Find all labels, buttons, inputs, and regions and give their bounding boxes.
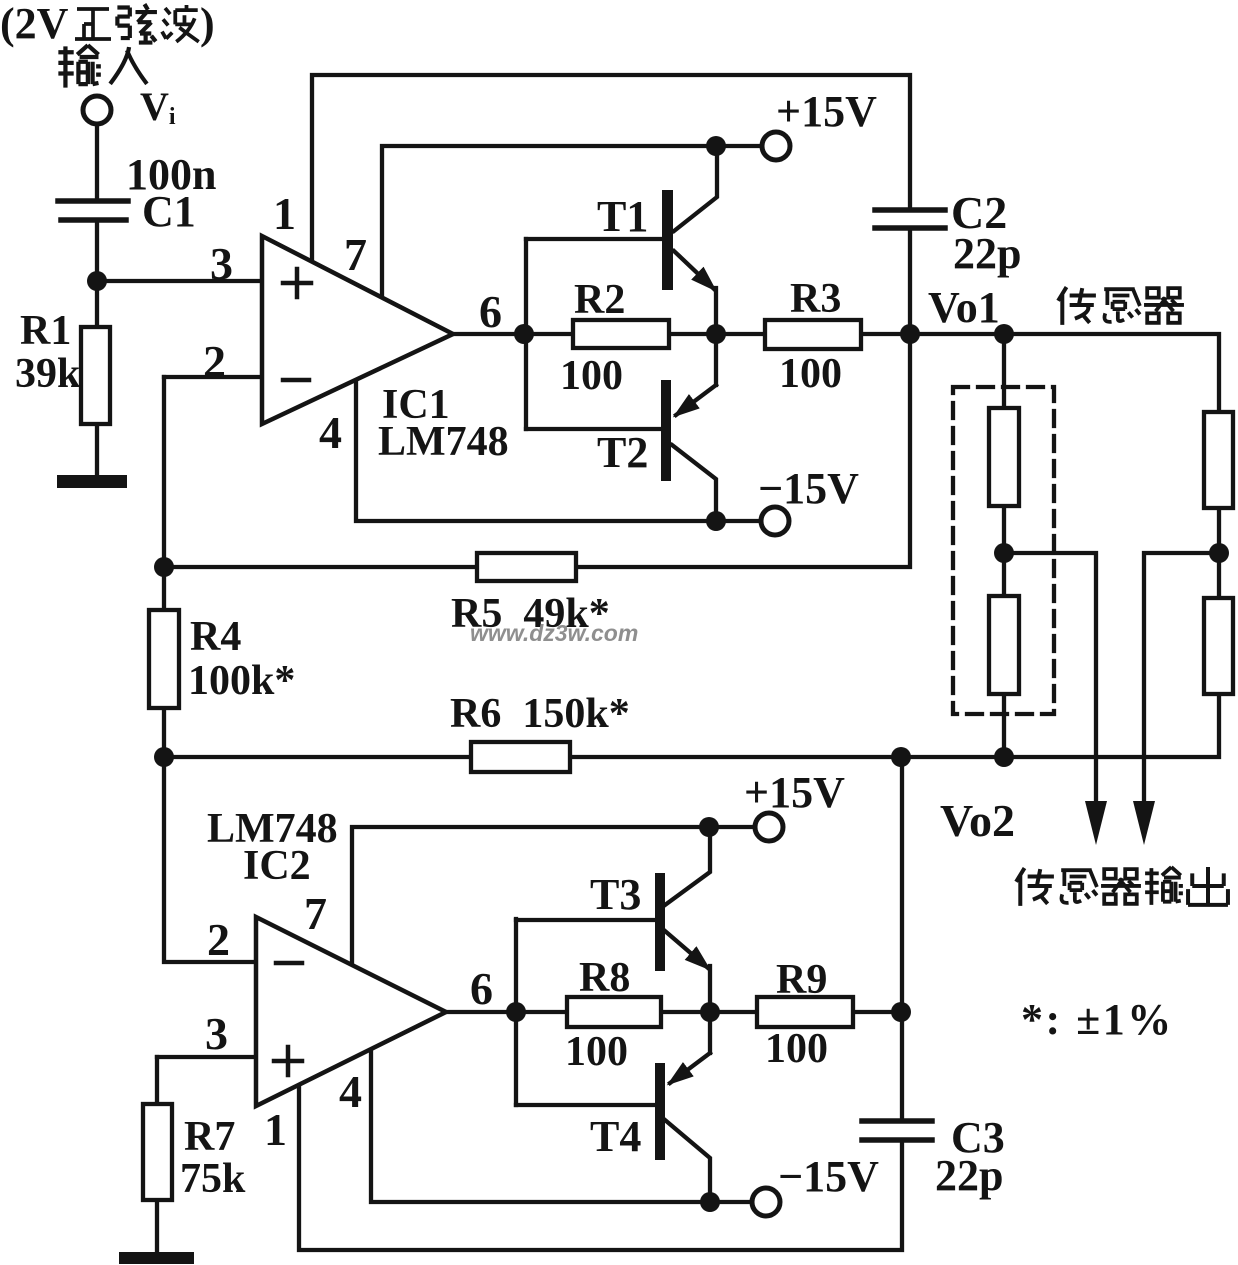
svg-text:−15V: −15V xyxy=(758,464,859,513)
op-amp IC1 xyxy=(262,236,453,424)
node bridge bottom xyxy=(994,747,1014,767)
resistor R9 xyxy=(757,997,853,1027)
wire IC2 pin 4 to -15V rail xyxy=(371,1046,753,1202)
wire C3 to bottom rail to IC2 pin 1 xyxy=(299,1083,902,1250)
svg-text:6: 6 xyxy=(479,286,502,337)
svg-text:4: 4 xyxy=(319,407,342,458)
svg-text:Vi: Vi xyxy=(140,84,176,130)
wire IC1 pin 4 to -15V rail xyxy=(356,378,761,521)
wire T2 base xyxy=(526,427,662,431)
wire C2 to output node xyxy=(908,229,912,334)
label zhengxianbo (sine wave) xyxy=(75,9,111,39)
wire Vo2 node down to C3 xyxy=(900,757,904,1120)
svg-text:R8: R8 xyxy=(579,955,630,1001)
svg-text:22p: 22p xyxy=(935,1151,1003,1200)
svg-text:6: 6 xyxy=(470,963,493,1014)
node R2-R3 emitters xyxy=(706,324,726,344)
wire input node to R1 xyxy=(95,281,99,327)
power terminal +15V xyxy=(762,132,790,160)
svg-text:100: 100 xyxy=(779,351,842,397)
svg-text:Vo1: Vo1 xyxy=(928,283,1000,332)
wire input node to IC1 pin 3 xyxy=(97,279,262,283)
wire IC1 output rail to right side xyxy=(453,334,1219,412)
node input xyxy=(87,271,107,291)
resistor R1 xyxy=(81,327,110,424)
label chuanganqi shuchu (sensor output) xyxy=(1016,868,1054,906)
svg-text:*: ±1%: *: ±1% xyxy=(1021,995,1174,1044)
svg-text:LM748: LM748 xyxy=(378,419,509,465)
wire Vi to C1 xyxy=(95,124,99,199)
node +15V rail IC2 xyxy=(699,817,719,837)
svg-text:22p: 22p xyxy=(953,229,1021,278)
wire bridge mid-left to output arrow 1 xyxy=(1004,553,1096,802)
svg-text:2: 2 xyxy=(203,336,226,387)
wire Vo1 down to bridge xyxy=(1002,334,1006,408)
capacitor C3 xyxy=(862,1121,932,1140)
bridge resistor upper-left xyxy=(989,408,1019,506)
wire right divider top xyxy=(1217,508,1221,598)
transistor T3 xyxy=(655,873,665,971)
svg-text:+15V: +15V xyxy=(776,87,877,136)
svg-text:75k: 75k xyxy=(180,1156,246,1202)
resistor R7 xyxy=(143,1104,172,1200)
sensor bridge dashed box xyxy=(953,387,1054,714)
svg-text:100k*: 100k* xyxy=(188,658,295,704)
resistor R3 xyxy=(765,320,861,349)
node inverting input IC1 xyxy=(154,557,174,577)
node Vo2 C3 xyxy=(891,747,911,767)
node R8-R9 emitters xyxy=(700,1002,720,1022)
capacitor C2 xyxy=(875,210,945,228)
svg-text:IC2: IC2 xyxy=(243,843,311,889)
node IC1 output pin 6 xyxy=(514,324,534,344)
label shuru (input) xyxy=(58,45,100,87)
wire R1 to ground xyxy=(95,424,99,476)
svg-text:R6 150k*: R6 150k* xyxy=(450,691,630,737)
op-amp IC2 xyxy=(256,917,446,1106)
svg-text:R3: R3 xyxy=(790,276,841,322)
svg-text:T1: T1 xyxy=(597,192,648,241)
label chuanganqi (sensor) xyxy=(1058,287,1096,325)
svg-text:100: 100 xyxy=(765,1026,828,1072)
resistor R6 xyxy=(471,742,570,772)
wire pin 3 node to R7 xyxy=(155,1057,159,1104)
resistor R2 xyxy=(573,320,669,348)
wire mid-right to output arrow 2 xyxy=(1144,553,1219,802)
ground (input) xyxy=(57,475,127,488)
wire inverting node to R4 xyxy=(162,567,166,610)
capacitor C1 xyxy=(58,201,128,220)
power terminal +15V (IC2) xyxy=(755,813,783,841)
wire R5 to inverting node xyxy=(164,565,477,569)
wire T3 base xyxy=(516,918,655,922)
resistor R5 xyxy=(477,553,576,581)
wire T4 base xyxy=(516,1103,655,1107)
resistor R8 xyxy=(567,997,661,1027)
node bridge mid-left xyxy=(994,543,1014,563)
bridge resistor lower-left xyxy=(989,596,1019,694)
wire T3 T4 base loop xyxy=(514,919,518,1105)
svg-text:T2: T2 xyxy=(597,428,648,477)
wire IC2 output rail xyxy=(446,1010,901,1014)
wire R6 rail (Vo2 net) xyxy=(164,694,1219,757)
node R9-C3 xyxy=(891,1002,911,1022)
node +15V rail xyxy=(706,136,726,156)
output arrow 2 xyxy=(1133,801,1155,845)
wire IC1 pin 7 to +15V rail xyxy=(382,146,762,296)
svg-text:100: 100 xyxy=(565,1029,628,1075)
wire IC1 pin 1 to top rail to C2 xyxy=(312,75,910,262)
svg-text:www.dz3w.com: www.dz3w.com xyxy=(470,620,638,646)
wire between bridge resistors left xyxy=(1002,506,1006,596)
input terminal Vi xyxy=(83,96,111,124)
resistor R4 xyxy=(149,610,179,708)
svg-text:T4: T4 xyxy=(590,1112,641,1161)
svg-text:3: 3 xyxy=(205,1008,228,1059)
output arrow 1 xyxy=(1085,801,1107,845)
transistor T1 xyxy=(662,190,673,290)
node Vo1 xyxy=(994,324,1014,344)
svg-text:3: 3 xyxy=(210,238,233,289)
svg-text:39k: 39k xyxy=(15,351,81,397)
wire IC2 pin 7 to +15V rail xyxy=(352,827,754,964)
svg-text:T3: T3 xyxy=(590,870,641,919)
node divider mid-right xyxy=(1209,543,1229,563)
power terminal -15V (IC2) xyxy=(752,1188,780,1216)
node C2 output xyxy=(900,324,920,344)
power terminal -15V xyxy=(761,507,789,535)
wire bridge left bottom to Vo2 rail xyxy=(1002,694,1006,757)
svg-text:4: 4 xyxy=(339,1066,362,1117)
transistor T4 xyxy=(655,1063,665,1160)
svg-text:7: 7 xyxy=(344,229,367,280)
wire inverting node up to pin 2 xyxy=(162,377,166,567)
svg-text:Vo2: Vo2 xyxy=(940,795,1015,846)
svg-text:−15V: −15V xyxy=(778,1152,879,1201)
svg-text:R7: R7 xyxy=(184,1114,235,1160)
svg-text:7: 7 xyxy=(304,888,327,939)
svg-text:100: 100 xyxy=(560,353,623,399)
wire IC2 pin 3 xyxy=(157,1055,256,1059)
node -15V rail IC2 xyxy=(700,1192,720,1212)
transistor T2 xyxy=(661,380,671,481)
wire R4 to R6 node xyxy=(162,708,166,757)
svg-text:+15V: +15V xyxy=(744,768,845,817)
divider resistor lower-right xyxy=(1204,598,1233,694)
node IC2 output pin 6 xyxy=(506,1002,526,1022)
svg-text:1: 1 xyxy=(264,1104,287,1155)
wire IC1 pin 2 xyxy=(164,375,262,379)
wire C1 to input node xyxy=(95,222,99,282)
wire R6 node down to IC2 pin 2 xyxy=(164,757,256,962)
divider resistor upper-right xyxy=(1204,412,1233,508)
svg-text:R2: R2 xyxy=(574,277,625,323)
node -15V rail xyxy=(706,511,726,531)
wire R7 to ground xyxy=(155,1200,159,1253)
svg-text:R1: R1 xyxy=(20,308,71,354)
svg-text:C1: C1 xyxy=(142,187,196,236)
svg-text:1: 1 xyxy=(273,188,296,239)
ground (R7) xyxy=(119,1252,194,1264)
svg-text:2: 2 xyxy=(207,914,230,965)
svg-text:): ) xyxy=(200,0,215,48)
wire T1 T2 base loop xyxy=(524,239,528,429)
svg-text:(2V: (2V xyxy=(0,0,69,48)
wire feedback down from output xyxy=(576,334,910,567)
svg-text:R9: R9 xyxy=(776,957,827,1003)
svg-text:R4: R4 xyxy=(190,614,241,660)
wire T1 base xyxy=(526,237,662,241)
node R4-R6 xyxy=(154,747,174,767)
